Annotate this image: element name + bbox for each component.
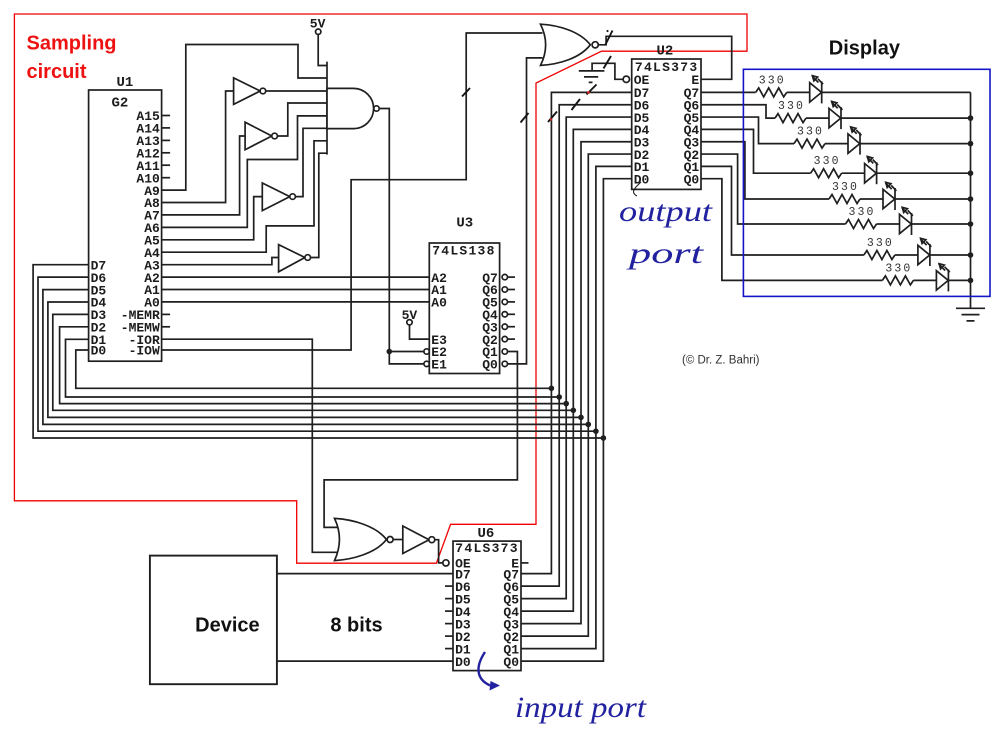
svg-text:330: 330 — [832, 181, 859, 194]
svg-text:U3: U3 — [456, 216, 473, 232]
svg-text:G2: G2 — [112, 96, 129, 112]
svg-text:U6: U6 — [478, 526, 495, 542]
svg-text:330: 330 — [759, 74, 786, 87]
svg-text:330: 330 — [849, 206, 876, 219]
svg-text:Sampling: Sampling — [27, 33, 117, 55]
svg-text:D0: D0 — [634, 172, 650, 187]
svg-text:Q0: Q0 — [503, 655, 519, 670]
svg-text:330: 330 — [814, 155, 841, 168]
svg-text:330: 330 — [797, 126, 824, 139]
svg-text:input port: input port — [515, 691, 647, 724]
svg-text:330: 330 — [867, 237, 894, 250]
svg-text:Q0: Q0 — [482, 358, 498, 373]
svg-text:74LS138: 74LS138 — [432, 243, 496, 258]
svg-text:D0: D0 — [91, 344, 107, 359]
svg-text:output: output — [619, 195, 713, 228]
svg-text:Display: Display — [829, 38, 901, 60]
svg-text:port: port — [626, 237, 704, 270]
svg-text:E1: E1 — [431, 358, 447, 373]
svg-text:A0: A0 — [431, 296, 447, 311]
svg-text:8 bits: 8 bits — [330, 615, 382, 637]
svg-text:5V: 5V — [310, 16, 326, 31]
svg-text:5V: 5V — [402, 308, 418, 323]
svg-text:Q0: Q0 — [684, 172, 700, 187]
svg-text:U2: U2 — [657, 44, 674, 60]
svg-text:-IOW: -IOW — [129, 344, 160, 359]
svg-text:circuit: circuit — [27, 61, 87, 83]
svg-text:330: 330 — [885, 262, 912, 275]
svg-text:Device: Device — [195, 614, 260, 636]
svg-text:330: 330 — [778, 100, 805, 113]
svg-text:D0: D0 — [455, 655, 471, 670]
svg-text:(© Dr. Z. Bahri): (© Dr. Z. Bahri) — [682, 355, 760, 367]
svg-text:74LS373: 74LS373 — [455, 541, 519, 556]
svg-text:U1: U1 — [117, 75, 134, 91]
